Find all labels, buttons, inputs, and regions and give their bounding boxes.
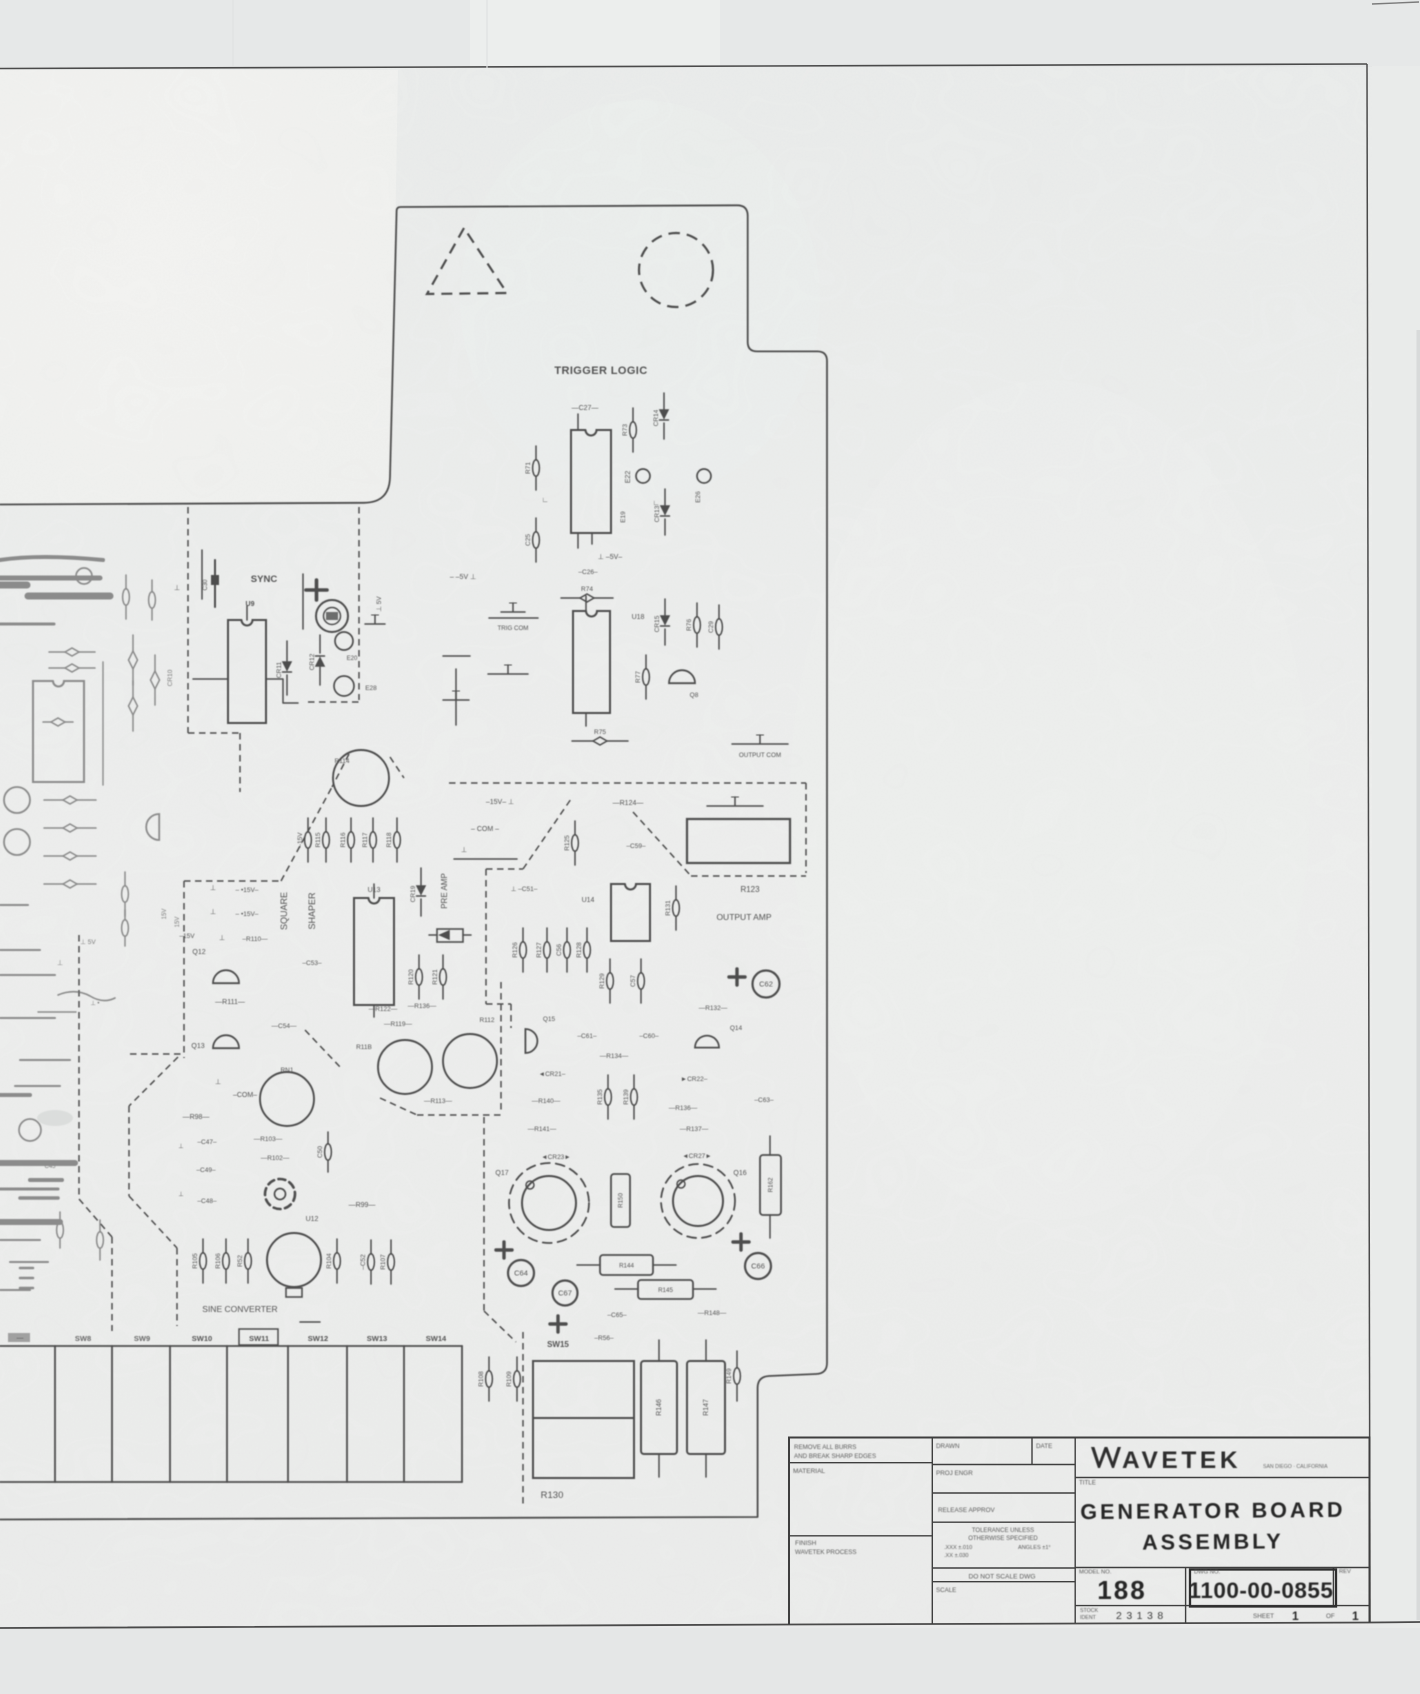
mid col rows [932,1465,1075,1582]
svg-text:C50: C50 [317,1146,324,1158]
resistor R120 [408,955,422,999]
svg-text:⊥: ⊥ [210,909,216,916]
svg-text:R117: R117 [362,832,369,847]
svg-text:—R137—: —R137— [680,1126,709,1133]
resistor R144 [600,1255,653,1275]
resistor [129,681,138,731]
switch bank SW8-SW14 [0,1346,462,1482]
dashed triangle fiducial [427,228,507,294]
svg-text:–COM–: –COM– [233,1092,257,1099]
svg-text:⊥: ⊥ [461,847,467,854]
svg-text:►CR22–: ►CR22– [681,1076,708,1083]
svg-text:–C26–: –C26– [578,569,598,576]
wire [0,1017,55,1019]
wire dashed [128,1106,130,1196]
svg-text:ANGLES ±1°: ANGLES ±1° [1018,1545,1051,1551]
wire [0,1289,30,1291]
wire [28,593,110,600]
svg-text:—R119—: —R119— [384,1021,413,1028]
wire dashed [633,812,691,876]
resistor R77 [635,655,649,699]
svg-text:—R134—: —R134— [600,1053,629,1060]
svg-text:Q12: Q12 [192,949,205,956]
svg-text:Q13: Q13 [191,1043,204,1050]
title block frame [789,1438,1370,1625]
wire [20,1196,58,1200]
svg-text:PROJ ENGR: PROJ ENGR [936,1470,973,1477]
wire dashed [358,507,360,700]
svg-text:R108: R108 [478,1371,485,1387]
PCB board outline [0,205,827,1519]
svg-text:R11B: R11B [356,1044,372,1051]
svg-text:R129: R129 [599,973,606,989]
svg-text:SHEET: SHEET [1253,1613,1274,1620]
transistor R118c [378,1040,432,1094]
svg-text:– •15V–: – •15V– [236,887,259,894]
resistor R71 [525,446,539,490]
model row dividers [1186,1568,1334,1624]
resistor [561,586,613,602]
resistor &#8211;C52 [360,1240,374,1284]
plus C67 [550,1316,566,1332]
svg-text:—R98—: —R98— [183,1114,210,1121]
potentiometer R101 [265,1179,295,1209]
resistor C29 [708,605,722,649]
svg-text:1100-00-0855: 1100-00-0855 [1189,1578,1334,1603]
svg-text:—R140—: —R140— [532,1098,561,1105]
sheet bottom border [0,1622,1420,1628]
svg-text:◄CR21–: ◄CR21– [539,1071,566,1078]
creases [233,0,487,68]
wire [15,1085,60,1087]
resistor R150 [611,1174,630,1227]
ground [501,603,525,612]
svg-text:R112: R112 [479,1017,494,1024]
wire [0,576,100,581]
svg-text:U12: U12 [306,1216,319,1223]
transistor Q14 [695,1036,719,1048]
transistor Q15 [525,1029,537,1053]
resistor [43,718,73,726]
SW15 [533,1361,634,1478]
svg-text:R73: R73 [622,424,629,436]
test point E26 [697,469,711,483]
resistor [44,880,96,888]
svg-text:—R102—: —R102— [261,1155,290,1162]
wire [0,1093,30,1097]
wire dashed [390,757,404,778]
svg-text:⊥: ⊥ [215,1079,221,1086]
test point [76,568,92,584]
test point [19,1119,41,1141]
plus C66 [733,1234,749,1250]
svg-text:CR12: CR12 [309,653,316,670]
wire [193,678,228,680]
test point E22 [636,469,650,483]
resistor C50 [317,1132,331,1172]
svg-text:SW9: SW9 [134,1334,150,1343]
transistor Q13 [213,1035,239,1048]
svg-text:Q15: Q15 [543,1016,556,1023]
wire [0,904,28,906]
resistor R107 [380,1240,394,1284]
svg-text:–15V: –15V [297,832,304,848]
svg-text:R118: R118 [386,832,393,847]
wire dashed [187,507,189,733]
wire [489,617,538,619]
svg-text:R116: R116 [340,832,347,847]
svg-text:C64: C64 [514,1269,528,1278]
wire [58,992,115,1001]
svg-text:–C53–: –C53– [302,960,322,967]
svg-text:E22: E22 [625,471,632,484]
wire dashed [484,1311,516,1342]
wire dashed [510,1004,512,1028]
svg-text:R120: R120 [408,969,415,985]
transistor R114 [333,750,389,806]
svg-text:SW11: SW11 [249,1334,269,1343]
capacitor C62 [729,969,780,998]
date cell [1031,1438,1033,1465]
svg-text:—R113—: —R113— [424,1098,453,1105]
wire [302,574,304,629]
resistor C56 [556,928,570,972]
svg-text:R52: R52 [237,1255,244,1267]
test point E21 [316,600,348,632]
resistor R104 [326,1239,340,1283]
wire [0,1239,40,1241]
svg-text:ASSEMBLY: ASSEMBLY [1142,1529,1284,1554]
svg-text:U14: U14 [582,897,595,904]
svg-text:FINISH: FINISH [795,1540,817,1547]
svg-text:U9: U9 [246,601,255,608]
svg-text:AVETEK: AVETEK [1122,1447,1241,1474]
R123 [687,819,790,863]
wire dashed [380,1098,417,1115]
corner mark [1372,2,1419,4]
svg-text:TRIG COM: TRIG COM [498,625,529,632]
svg-text:TOLERANCE UNLESS: TOLERANCE UNLESS [972,1528,1034,1534]
wire [300,1321,320,1323]
U12 [267,1233,321,1297]
svg-text:—R103—: —R103— [254,1136,283,1143]
svg-text:⊥: ⊥ [178,1191,183,1198]
resistor R116 [340,818,354,862]
wire dashed [281,787,332,881]
diode CR19 [410,868,426,916]
svg-text:RELEASE APPROV: RELEASE APPROV [938,1507,995,1514]
svg-text:–15V– ⊥: –15V– ⊥ [486,799,514,806]
svg-text:–C59–: –C59– [626,843,646,850]
svg-text:—R124—: —R124— [613,800,644,807]
svg-text:C30: C30 [203,579,209,591]
svg-text:SINE CONVERTER: SINE CONVERTER [202,1304,277,1314]
Q17 [509,1163,589,1243]
svg-text:C57: C57 [630,975,637,987]
diode CR11 [276,641,292,695]
wire [214,560,216,607]
svg-text:OF: OF [1326,1613,1335,1620]
svg-text:OTHERWISE SPECIFIED: OTHERWISE SPECIFIED [968,1536,1038,1542]
svg-text:REV: REV [1339,1569,1351,1575]
IC U15 [571,430,611,533]
resistor R131 [665,886,679,930]
resistor R73 [622,408,636,452]
resistor R128 [576,928,590,972]
svg-text:—R141—: —R141— [528,1126,557,1133]
wire [0,1160,75,1166]
resistor R129 [599,959,613,1003]
svg-text:SW8: SW8 [75,1334,91,1343]
svg-text:R121: R121 [432,969,439,985]
wire [455,669,457,725]
transistor RN1 [260,1072,314,1126]
ground [365,615,385,624]
dwg no hand box [1190,1570,1336,1607]
svg-text:CR11: CR11 [276,662,283,679]
capacitor C66 [0,0,771,1279]
wire [0,1188,58,1191]
IC U13 [354,898,394,1005]
resistor R126 [512,928,526,972]
resistor R135 [597,1075,611,1119]
resistor R117 [362,818,376,862]
ground [488,665,528,674]
resistor [57,1212,64,1248]
svg-text:DO NOT SCALE DWG: DO NOT SCALE DWG [969,1574,1036,1581]
svg-text:–C60–: –C60– [639,1033,659,1040]
IC U14 [611,884,650,941]
dashed circle fiducial [639,233,713,307]
svg-text:CR15: CR15 [654,615,661,632]
svg-text:E26: E26 [695,491,702,503]
wire [102,662,104,785]
svg-text:R76: R76 [686,619,693,631]
resistor R121 [432,955,446,999]
resistor [122,872,129,916]
plus C64 [496,1242,512,1258]
wire [10,1261,48,1263]
resistor R109 [506,1357,520,1401]
wire U15 leads [578,414,592,548]
resistor R105 [192,1239,206,1283]
wire dashed [129,1196,177,1248]
svg-text:R162: R162 [768,1177,775,1192]
svg-text:∟: ∟ [542,497,549,504]
wire [201,550,203,599]
wire dashed [500,982,502,1112]
svg-text:CR13: CR13 [654,505,661,522]
resistor R127 [536,928,550,972]
resistor C57 [630,959,644,1003]
svg-text:SHAPER: SHAPER [307,892,317,930]
wire dashed [485,869,487,1004]
svg-text:C29: C29 [708,621,715,633]
wire [30,1178,62,1182]
svg-text:R131: R131 [665,900,672,916]
hand lettered title [1080,1498,1345,1605]
wire dashed [78,935,80,1199]
wire [0,582,27,589]
svg-text:DATE: DATE [1036,1443,1052,1450]
wire dashed [130,1053,184,1055]
svg-text:⊥ –5V–: ⊥ –5V– [598,554,622,561]
svg-text:∟: ∟ [653,500,660,507]
svg-text:—C27—: —C27— [572,405,599,412]
resistor R162 [760,1155,781,1215]
svg-text:DRAWN: DRAWN [936,1443,960,1450]
transistor Q8 [669,670,695,683]
svg-text:U18: U18 [632,614,645,621]
svg-text:WAVETEK PROCESS: WAVETEK PROCESS [795,1549,857,1556]
sheet right border [1367,64,1370,1622]
svg-text:–R56–: –R56– [594,1335,614,1342]
wire [0,974,55,976]
svg-text:1: 1 [1352,1609,1359,1623]
scan edge [1417,330,1420,1620]
resistor R147 [687,1361,725,1454]
wire dashed [79,1199,112,1237]
svg-text:⊥: ⊥ [174,585,180,592]
svg-text:R125: R125 [564,835,571,851]
resistor C25 [525,518,539,562]
wire dashed [691,875,806,877]
left col rows [789,1463,932,1536]
test point [4,829,30,855]
svg-text:SW10: SW10 [192,1334,212,1343]
svg-text:R74: R74 [581,586,593,593]
resistor [149,580,156,620]
svg-text:1: 1 [1292,1609,1299,1623]
wire [0,949,40,951]
svg-text:R130: R130 [541,1490,564,1501]
diode CR13 [654,489,670,535]
svg-text:REMOVE ALL BURRS: REMOVE ALL BURRS [794,1444,856,1451]
svg-text:– –5V ⊥: – –5V ⊥ [450,574,476,581]
resistor R76 [686,603,700,647]
svg-text:⊥: ⊥ [178,1143,183,1150]
svg-text:Q16: Q16 [733,1170,746,1177]
wire dashed [805,783,807,873]
svg-text:—R136—: —R136— [669,1105,698,1112]
sheet top border [0,64,1367,69]
col dividers [932,1438,1075,1625]
svg-text:SW15: SW15 [547,1340,569,1349]
right col rows [1075,1478,1369,1606]
svg-text:R128: R128 [576,942,583,958]
resistor R139 [623,1075,637,1119]
wire [658,1340,660,1477]
svg-text:–C48–: –C48– [197,1198,217,1205]
capacitor C58 [437,929,463,942]
svg-text:–C61–: –C61– [577,1033,597,1040]
svg-text:R147: R147 [703,1399,710,1416]
svg-text:Q8: Q8 [690,692,699,699]
resistor R149 [726,1351,740,1401]
resistor [122,910,129,946]
ground [732,735,788,744]
wire [615,1288,716,1290]
wire dashed [522,1332,524,1505]
svg-text:—R148—: —R148— [698,1310,727,1317]
diode CR12 [309,635,325,685]
wire [705,1340,707,1477]
svg-text:OUTPUT COM: OUTPUT COM [739,752,781,759]
svg-text:MATERIAL: MATERIAL [793,1468,825,1475]
svg-text:R146: R146 [656,1399,663,1416]
wire dashed [483,1117,485,1311]
svg-text:DWG NO.: DWG NO. [1194,1570,1220,1576]
wire dashed [523,799,571,869]
resistor [572,729,628,745]
svg-text:– COM –: – COM – [471,826,499,833]
wire [38,1011,76,1013]
svg-text:E28: E28 [365,685,377,692]
resistor R115 [315,818,329,862]
svg-text:◄CR27►: ◄CR27► [682,1153,712,1160]
svg-text:SYNC: SYNC [251,574,278,585]
svg-text:⊥: ⊥ [57,960,63,967]
svg-text:R145: R145 [658,1287,673,1294]
svg-text:.XXX ±.010: .XXX ±.010 [944,1545,972,1551]
svg-text:R150: R150 [618,1193,625,1208]
svg-text:R75: R75 [594,729,606,736]
resistor R145 [638,1280,693,1299]
test point E28 [334,676,354,696]
wire [577,1264,676,1266]
svg-text:23138: 23138 [1116,1610,1168,1622]
resistor [49,648,95,656]
svg-text:R77: R77 [635,671,642,683]
ground [443,691,469,700]
svg-text:CR14: CR14 [653,409,660,426]
svg-text:SQUARE: SQUARE [279,892,289,930]
svg-text:TRIGGER LOGIC: TRIGGER LOGIC [554,365,647,377]
svg-text:–15V: –15V [179,933,195,940]
svg-text:⊥ 5V: ⊥ 5V [80,939,96,946]
svg-text:R144: R144 [619,1263,634,1270]
IC U9 [228,620,266,723]
wire dashed [305,1030,341,1068]
svg-text:–C65–: –C65– [607,1312,627,1319]
wire dashed [486,868,523,870]
wire dashed [417,1114,501,1116]
svg-text:E20: E20 [347,656,358,662]
svg-text:—C54—: —C54— [272,1023,297,1030]
IC U2 [33,681,84,782]
svg-text:SCALE: SCALE [936,1587,956,1594]
svg-text:R139: R139 [623,1089,630,1105]
svg-text:SW14: SW14 [426,1334,447,1343]
svg-text:CR10: CR10 [167,669,174,686]
wire [0,623,54,626]
resistor [44,824,96,832]
wire [20,1268,33,1288]
capacitor C64 [0,0,534,1286]
svg-text:RN1: RN1 [280,1067,293,1074]
svg-text:R114: R114 [334,758,349,765]
wire [20,1059,70,1061]
svg-text:15V: 15V [162,909,168,920]
svg-text:—R111—: —R111— [215,999,245,1006]
svg-text:–C49–: –C49– [196,1167,216,1174]
wire dashed [239,733,241,792]
resistor R106 [215,1239,229,1283]
svg-text:R149: R149 [726,1368,733,1384]
resistor R146 [641,1361,677,1454]
resistor [151,655,160,705]
svg-text:AND BREAK SHARP EDGES: AND BREAK SHARP EDGES [794,1453,876,1460]
